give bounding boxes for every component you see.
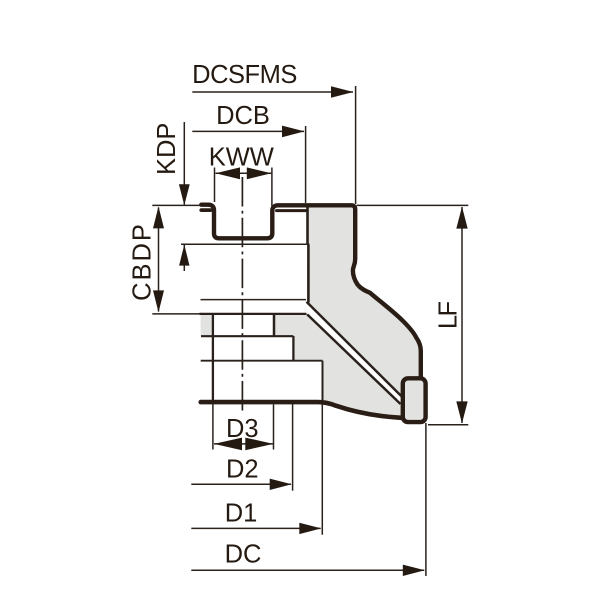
svg-text:DC: DC <box>225 541 262 569</box>
svg-text:CBDP: CBDP <box>129 222 157 301</box>
svg-text:KDP: KDP <box>153 123 181 175</box>
svg-text:D1: D1 <box>225 500 258 528</box>
svg-text:DCSFMS: DCSFMS <box>192 61 297 89</box>
svg-text:DCB: DCB <box>216 102 270 130</box>
svg-text:LF: LF <box>435 302 463 330</box>
svg-text:D2: D2 <box>226 456 259 484</box>
svg-text:KWW: KWW <box>209 143 274 171</box>
svg-text:D3: D3 <box>226 415 259 443</box>
